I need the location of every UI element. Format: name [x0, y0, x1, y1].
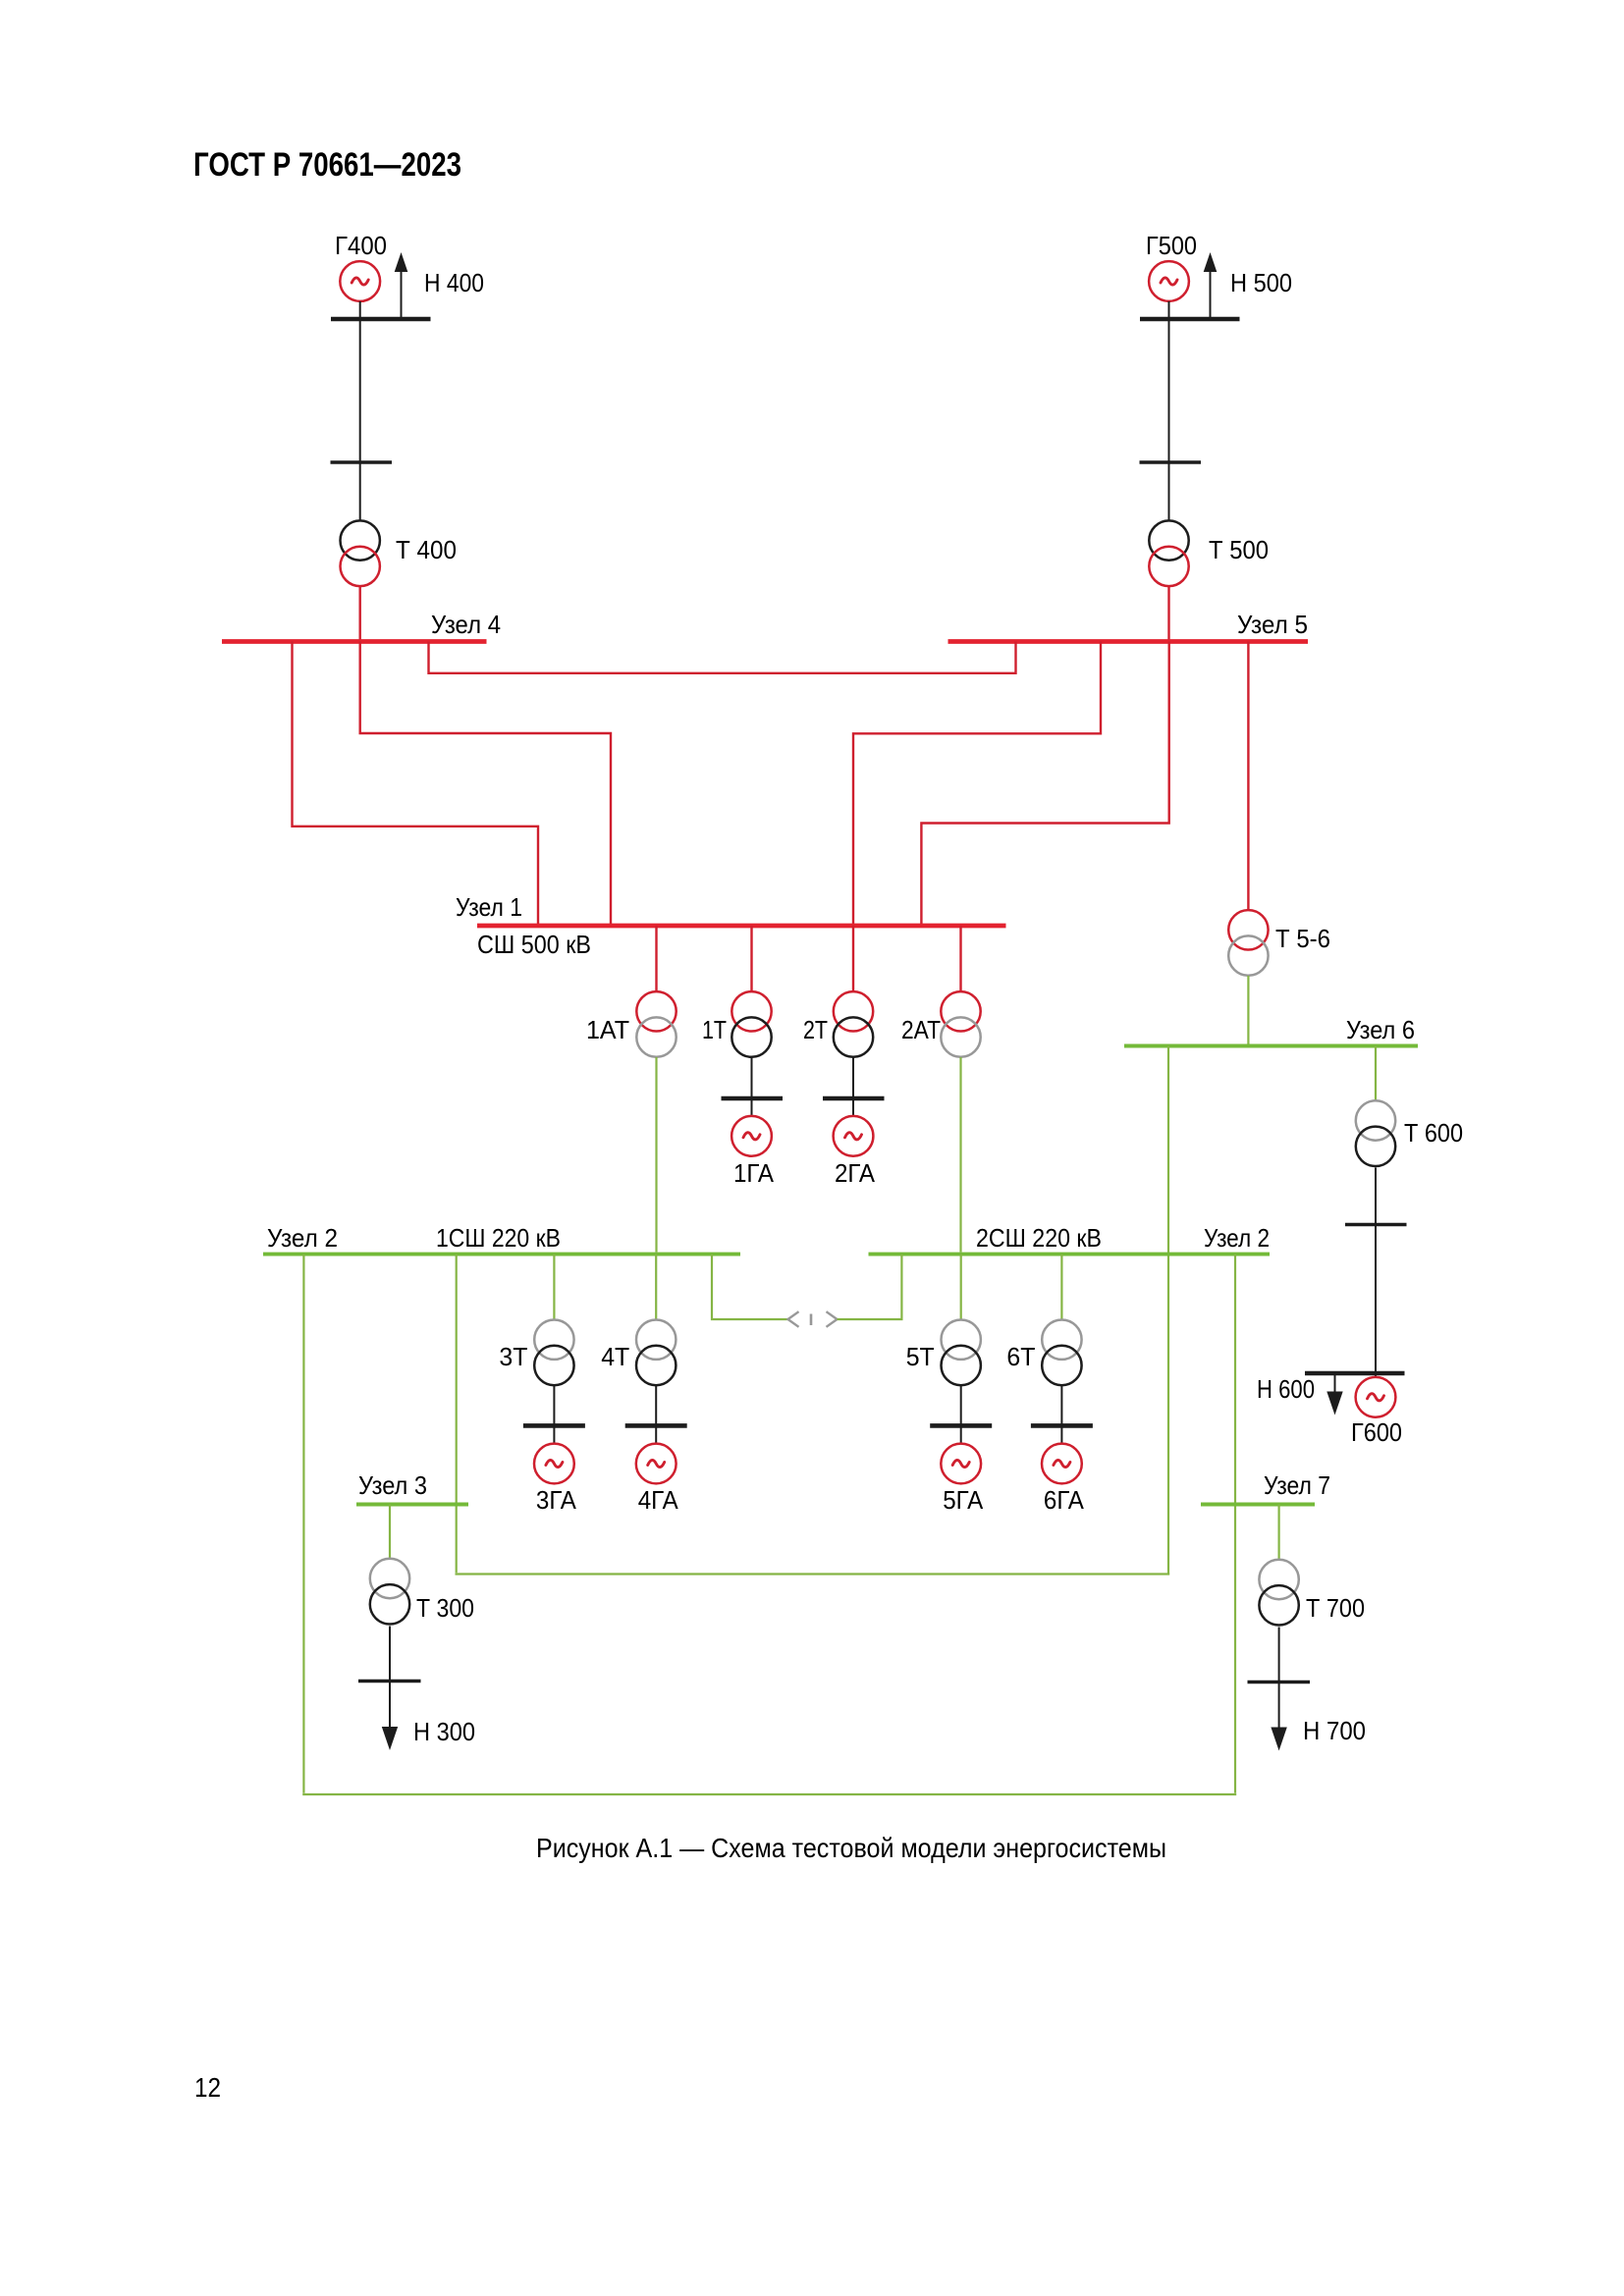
bus Узел 6	[1124, 1044, 1418, 1048]
wire bus to 3Т	[553, 1255, 555, 1320]
wire Т600 down	[1375, 1168, 1377, 1374]
svg-text:2ГА: 2ГА	[835, 1158, 876, 1188]
generator Г600	[1356, 1377, 1396, 1417]
tie open-point chevron left	[788, 1311, 799, 1327]
generator 6ГА	[1042, 1444, 1082, 1484]
wire bus to 6Т	[1060, 1255, 1062, 1320]
svg-text:Т 600: Т 600	[1404, 1118, 1463, 1148]
generator Г400	[340, 261, 380, 301]
svg-text:ГОСТ Р 70661—2023: ГОСТ Р 70661—2023	[193, 146, 461, 184]
wire Узел 1 to 2Т	[852, 926, 854, 992]
svg-text:1Т: 1Т	[702, 1015, 727, 1044]
tie line 2СШ side	[838, 1255, 902, 1319]
wire Г400 to Т400	[359, 301, 361, 521]
svg-text:Рисунок А.1 — Схема тестовой м: Рисунок А.1 — Схема тестовой модели энер…	[536, 1833, 1166, 1863]
load arrow Н 600	[1326, 1375, 1342, 1415]
load arrow Н 400	[395, 252, 408, 319]
wire Узел 6 to Т 600	[1375, 1046, 1377, 1102]
svg-text:Т 5-6: Т 5-6	[1275, 924, 1330, 953]
transformer 2Т	[834, 991, 873, 1057]
bus Узел 1 СШ 500 кВ	[477, 924, 1006, 929]
node bar 2ГА	[823, 1096, 885, 1101]
wire to Г600	[1375, 1373, 1377, 1377]
transformer 3Т	[534, 1320, 573, 1386]
wire bus to 5Т	[960, 1255, 962, 1320]
line Узел 1 - Узел 5 (a)	[853, 642, 1101, 927]
transformer Т 600	[1356, 1100, 1395, 1166]
wire Т400 to Узел 4	[359, 586, 361, 641]
transformer Т 500	[1149, 520, 1188, 586]
transformer Т 400	[341, 520, 380, 586]
svg-text:1ГА: 1ГА	[733, 1158, 775, 1188]
load arrow Н 700	[1271, 1682, 1286, 1751]
load arrow Н 500	[1204, 252, 1218, 319]
svg-text:Н 400: Н 400	[424, 268, 484, 297]
wire 1Т to 1ГА	[751, 1057, 753, 1116]
bus 1СШ 220 кВ	[263, 1253, 740, 1256]
wire 6Т to 6ГА	[1060, 1385, 1062, 1444]
tick 700 line	[1248, 1681, 1311, 1684]
transformer 6Т	[1042, 1320, 1081, 1386]
svg-text:Н 300: Н 300	[413, 1717, 475, 1746]
svg-text:Узел 2: Узел 2	[267, 1223, 338, 1253]
wire Узел 7 to Т 700	[1277, 1505, 1279, 1561]
transformer 4Т	[636, 1320, 676, 1386]
node bar 5ГА	[930, 1423, 992, 1428]
svg-text:3Т: 3Т	[499, 1342, 527, 1371]
load arrow Н 300	[382, 1682, 398, 1751]
wire 2Т to 2ГА	[852, 1057, 854, 1116]
svg-text:Узел 6: Узел 6	[1346, 1015, 1415, 1044]
wire Узел 1 to 2АТ	[959, 926, 961, 992]
bus 2СШ 220 кВ	[869, 1253, 1271, 1256]
svg-text:Г600: Г600	[1351, 1417, 1402, 1447]
wire Т700 down	[1278, 1628, 1280, 1682]
wire 4Т to 4ГА	[655, 1385, 657, 1444]
svg-text:Н 500: Н 500	[1230, 268, 1292, 297]
svg-text:2АТ: 2АТ	[901, 1015, 941, 1044]
wire Г500 to Т500	[1168, 301, 1170, 521]
node bar 3ГА	[523, 1423, 585, 1428]
transformer 1АТ	[636, 991, 676, 1057]
wire Узел 3 to Т 300	[389, 1505, 391, 1560]
node bar 600	[1305, 1371, 1405, 1376]
tick 300 line	[358, 1680, 421, 1683]
node bar 6ГА	[1031, 1423, 1093, 1428]
generator 3ГА	[534, 1444, 574, 1484]
generator Г500	[1149, 261, 1189, 301]
wire link Узел 3 - Узел 6	[456, 1573, 1170, 1575]
svg-text:4Т: 4Т	[601, 1342, 629, 1371]
svg-text:1АТ: 1АТ	[586, 1015, 629, 1044]
svg-text:Н 700: Н 700	[1303, 1716, 1366, 1745]
svg-text:Т 500: Т 500	[1209, 535, 1269, 564]
transformer 2АТ	[941, 991, 980, 1057]
tie open-point bar	[810, 1314, 813, 1326]
svg-text:6Т: 6Т	[1006, 1342, 1035, 1371]
line Узел 4 - Узел 1 (b)	[293, 642, 539, 927]
tie open-point chevron right	[827, 1311, 838, 1327]
generator 2ГА	[834, 1116, 874, 1156]
svg-text:Н 600: Н 600	[1257, 1374, 1315, 1404]
wire Узел 6 down to tie with 1СШ	[1167, 1046, 1169, 1575]
wire 3Т to 3ГА	[553, 1385, 555, 1444]
bus Узел 3	[356, 1503, 468, 1507]
wire 1СШ down through Узел 3	[456, 1255, 458, 1574]
wire Т 5-6 to Узел 6	[1247, 976, 1249, 1044]
svg-text:Узел 1: Узел 1	[456, 892, 522, 922]
svg-text:Т 700: Т 700	[1306, 1593, 1365, 1623]
wire 1АТ to 1СШ 220	[655, 1057, 657, 1253]
wire Узел 2 bottom link	[302, 1793, 1236, 1795]
svg-text:Т 400: Т 400	[396, 535, 457, 564]
svg-text:2Т: 2Т	[803, 1015, 828, 1044]
line Узел 4 - Узел 1 (a)	[360, 642, 611, 927]
svg-text:3ГА: 3ГА	[536, 1485, 577, 1515]
svg-text:Г500: Г500	[1146, 231, 1197, 260]
svg-text:5Т: 5Т	[906, 1342, 935, 1371]
svg-text:12: 12	[194, 2072, 221, 2103]
wire 5Т to 5ГА	[960, 1385, 962, 1444]
node bar 400	[331, 317, 431, 322]
line Узел 1 - Узел 5 (b)	[921, 642, 1168, 927]
svg-text:Т 300: Т 300	[416, 1593, 474, 1623]
wire Узел 2 right down through Узел 7	[1234, 1255, 1236, 1793]
wire bus to 4Т	[655, 1255, 657, 1320]
svg-text:Узел 5: Узел 5	[1237, 610, 1308, 639]
generator 5ГА	[941, 1444, 981, 1484]
tick 500 line	[1140, 460, 1202, 464]
line Узел 4 - Узел 5	[429, 642, 1016, 673]
svg-text:Узел 7: Узел 7	[1264, 1470, 1330, 1500]
svg-text:1СШ 220 кВ: 1СШ 220 кВ	[436, 1223, 561, 1253]
svg-text:Узел 4: Узел 4	[431, 610, 501, 639]
wire 2АТ to 2СШ 220	[959, 1057, 961, 1253]
transformer Т 5-6	[1228, 910, 1268, 976]
svg-text:2СШ 220 кВ: 2СШ 220 кВ	[976, 1223, 1102, 1253]
wire Узел 1 to 1Т	[750, 926, 752, 992]
svg-text:Узел 2: Узел 2	[1204, 1223, 1270, 1253]
bus Узел 7	[1201, 1503, 1315, 1507]
tie line 1СШ side	[712, 1255, 788, 1319]
transformer Т 700	[1259, 1560, 1298, 1626]
svg-text:6ГА: 6ГА	[1044, 1485, 1085, 1515]
bus Узел 4	[222, 639, 487, 644]
node bar 1ГА	[722, 1096, 784, 1101]
wire Узел 2 left down	[302, 1255, 304, 1793]
bus Узел 5	[948, 639, 1309, 644]
generator 1ГА	[731, 1116, 772, 1156]
tick 400 line	[331, 460, 393, 464]
svg-text:5ГА: 5ГА	[943, 1485, 984, 1515]
svg-text:Узел 3: Узел 3	[358, 1470, 427, 1500]
svg-text:4ГА: 4ГА	[638, 1485, 679, 1515]
wire Узел 1 to 1АТ	[655, 926, 657, 992]
transformer 5Т	[942, 1320, 981, 1386]
node bar 500	[1140, 317, 1240, 322]
transformer Т 300	[370, 1559, 409, 1625]
node bar 4ГА	[625, 1423, 687, 1428]
wire Т500 to Узел 5	[1167, 586, 1169, 641]
wire Узел 5 to Т 5-6	[1247, 642, 1249, 912]
generator 4ГА	[636, 1444, 677, 1484]
transformer 1Т	[731, 991, 771, 1057]
svg-text:Г400: Г400	[335, 231, 387, 260]
tick 600 line	[1345, 1223, 1407, 1227]
svg-text:СШ 500 кВ: СШ 500 кВ	[477, 930, 591, 959]
wire Т300 down	[389, 1627, 391, 1682]
